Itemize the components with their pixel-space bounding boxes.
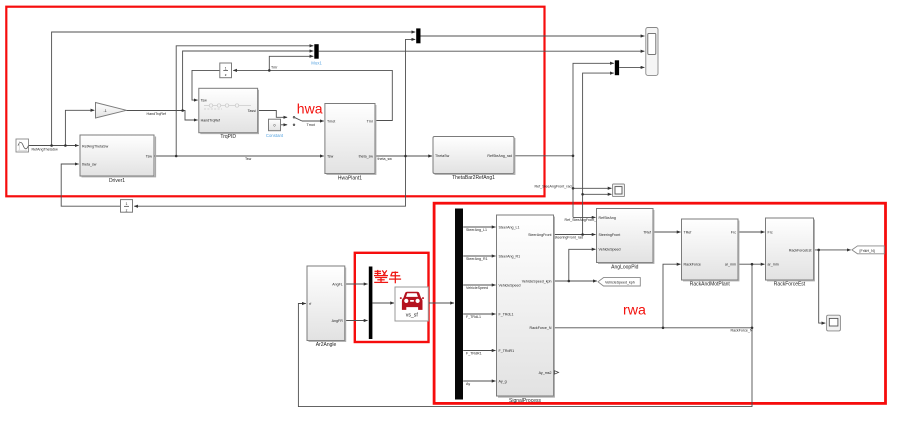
wire to gain input <box>65 110 94 145</box>
wire HwaPlant1 Tmr loop <box>269 70 392 120</box>
wire branch to Scope2 in1 <box>573 187 612 189</box>
svg-text:Tsw: Tsw <box>201 99 208 103</box>
annotation text hwa <box>297 100 323 116</box>
wire branch to Scope2 in2 <box>583 193 612 195</box>
svg-text:TrqPID: TrqPID <box>220 134 236 140</box>
svg-text:z: z <box>126 208 128 212</box>
goto tag VehicleSpeed_kph <box>598 278 640 286</box>
wire VehicleSpeed_kph branch to AngLoopPid <box>569 249 596 281</box>
svg-text:SteerAngFront: SteerAngFront <box>528 233 551 237</box>
wire bus bar to SignalProcess Ay <box>463 380 495 382</box>
annotation box zhengche region <box>355 253 429 342</box>
svg-text:RefSteAng_rad: RefSteAng_rad <box>487 154 512 158</box>
svg-text:Ref_SteeAngFront_rad: Ref_SteeAngFront_rad <box>565 218 602 222</box>
svg-text:Tmr: Tmr <box>271 66 278 70</box>
junction node SteerAngFront <box>581 193 584 196</box>
wire Ar2Angle AngFL to mux <box>345 283 368 285</box>
svg-text:Frc: Frc <box>731 230 736 234</box>
annotation box rwa region <box>434 203 885 403</box>
wire SteerAngFront to AngLoopPid <box>554 234 596 236</box>
wire TrqPID Tassi to switch <box>258 111 288 118</box>
constant block 0 <box>266 119 284 138</box>
wire RackForceEst out to tag <box>814 249 851 251</box>
wire delay1 out to TrqPID Tsw <box>192 70 220 100</box>
annotation text rwa <box>623 303 646 319</box>
svg-text:theta_sw: theta_sw <box>378 157 393 161</box>
wire car vs_sf out to bus bar <box>428 302 454 304</box>
wire label F_TRdR1 <box>466 352 482 356</box>
wire Driver1 Tsw to HwaPlant1 <box>154 155 324 157</box>
svg-text:VehicleSpeed_kph: VehicleSpeed_kph <box>605 281 635 285</box>
svg-text:Frc: Frc <box>768 230 773 234</box>
block RackForceEst <box>766 218 815 287</box>
block ThetaBar2RefAng1 <box>433 137 515 182</box>
svg-text:RackForceEst: RackForceEst <box>774 281 806 287</box>
svg-text:vs_sf: vs_sf <box>406 313 419 319</box>
block RackAndMotPlant <box>682 219 739 288</box>
junction node gain-in <box>64 144 67 147</box>
svg-text:ar_mm: ar_mm <box>768 263 779 267</box>
wire label Ref_SteeAngFront_rad upper <box>535 184 572 188</box>
wire bus bar to SignalProcess SteerAng_R1 <box>463 255 495 257</box>
svg-text:RackForce_N: RackForce_N <box>731 329 753 333</box>
svg-text:VehicleSpeed_kph: VehicleSpeed_kph <box>522 279 552 283</box>
wire Tmr branch to Mux1 <box>269 56 313 70</box>
mux bar zhengche <box>369 267 373 340</box>
goto tag F rack force output <box>852 246 884 254</box>
scope Scope1 <box>646 28 658 76</box>
wire label Tsw <box>245 157 252 161</box>
wire label SteerAng_R1 <box>466 257 488 261</box>
svg-text:RackForce: RackForce <box>684 263 701 267</box>
svg-text:rf: rf <box>309 302 311 306</box>
wire Mux2 out to Scope1 <box>421 35 645 37</box>
wire Mux1 out to Scope1 <box>319 50 645 52</box>
svg-text:SteerAng_L1: SteerAng_L1 <box>466 228 487 232</box>
svg-text:Driver1: Driver1 <box>109 178 125 184</box>
svg-text:Tmot: Tmot <box>327 119 335 123</box>
wire label SteeringFront_rad <box>554 236 583 240</box>
svg-text:ThetaBar2RefAng1: ThetaBar2RefAng1 <box>452 175 495 181</box>
unit delay block 1/z (bottom) <box>121 200 133 213</box>
annotation text zhengche (Chinese glyphs drawn as strokes) <box>374 270 401 283</box>
unit delay block 1/z (top) <box>220 63 232 78</box>
wire branch to Scope3 <box>819 250 826 323</box>
wire label Ref_SteeAngFront_rad lower <box>565 218 602 222</box>
svg-text:SteerAng_R1: SteerAng_R1 <box>466 257 488 261</box>
block TrqPID <box>199 88 259 140</box>
wire top rail to Mux2 <box>52 32 416 146</box>
wire RackForce_N branch to RackAndMotPlant <box>663 264 681 328</box>
annotation box hwa region <box>6 7 544 197</box>
bus selector bar <box>455 209 463 400</box>
svg-text:F_TRdR1: F_TRdR1 <box>466 352 482 356</box>
svg-text:TRef: TRef <box>643 230 651 234</box>
wire Tsw branch to Mux1 <box>176 46 313 156</box>
wire theta_sw branch up to Mux2 <box>406 39 416 156</box>
svg-text:AngFL: AngFL <box>332 282 343 286</box>
wire bus bar to SignalProcess F_TRdL1 <box>463 313 495 315</box>
svg-text:Tassi: Tassi <box>248 109 256 113</box>
junction node sine-rail <box>50 144 53 147</box>
scope Scope2 <box>613 184 625 197</box>
svg-text:RefAngThetaSw: RefAngThetaSw <box>32 148 59 152</box>
wire Ar2Angle AngFR to mux <box>345 320 368 322</box>
svg-text:Tsw: Tsw <box>327 154 334 158</box>
svg-text:SteerAng_R1: SteerAng_R1 <box>499 254 521 258</box>
junction node RackForceEst <box>817 249 820 252</box>
svg-text:Ay_g: Ay_g <box>499 379 507 383</box>
wire bus bar to SignalProcess F_TRdR1 <box>463 350 495 352</box>
mux Mux1 <box>311 44 322 65</box>
junction node Tmr <box>268 69 271 72</box>
block Ar2Angle <box>307 266 346 348</box>
wire ar_mm to RackForceEst <box>738 263 764 265</box>
wire label SteerAng_L1 <box>466 228 487 232</box>
unconnected output arrow Ay_ms2 <box>555 371 559 374</box>
mux Mux3 <box>615 60 619 75</box>
svg-text:theta_sw: theta_sw <box>359 154 374 158</box>
svg-text:Ay: Ay <box>466 382 470 386</box>
wire theta_sw to ThetaBar2RefAng1 <box>375 155 432 157</box>
wire Ref_SteeAngFront_rad vertical <box>573 63 614 217</box>
wire bus bar to SignalProcess VehicleSpeed <box>463 284 495 286</box>
sine wave source RefAngThetaSw <box>16 139 29 152</box>
wire into delay1 <box>233 69 269 71</box>
svg-text:Ar2Angle: Ar2Angle <box>316 342 337 348</box>
svg-text:RackForceEst: RackForceEst <box>789 248 812 252</box>
svg-text:z: z <box>225 73 227 77</box>
svg-text:RefSteAng: RefSteAng <box>599 216 616 220</box>
wire AngLoopPid TRef to RackAndMotPlant <box>653 231 680 233</box>
svg-text:VehicleSpeed: VehicleSpeed <box>499 283 521 287</box>
svg-text:ar_mm: ar_mm <box>725 263 736 267</box>
wire delay2 out to Driver1 theta_sw <box>61 164 120 206</box>
svg-text:0: 0 <box>274 124 276 128</box>
junction node RackForce_N <box>662 327 665 330</box>
svg-text:RefAngThetaSw: RefAngThetaSw <box>82 144 109 148</box>
wire HandTrqRef branch to Mux1 <box>183 51 314 111</box>
wire mux to car vs_sf <box>372 302 394 304</box>
wire Frc to RackForceEst <box>738 231 764 233</box>
svg-text:Tsw: Tsw <box>245 157 252 161</box>
wire Mux3 out to Scope1 <box>619 66 644 68</box>
svg-text:RackAndMotPlant: RackAndMotPlant <box>690 282 731 288</box>
junction node VehicleSpeed_kph <box>568 280 571 283</box>
wire label theta_sw <box>378 157 393 161</box>
svg-text:F_TRdL1: F_TRdL1 <box>466 315 481 319</box>
switch lever and output wire Tmot <box>295 118 302 121</box>
svg-text:hwa: hwa <box>297 100 323 116</box>
svg-text:[FrlkH_N]: [FrlkH_N] <box>860 249 875 253</box>
svg-text:VehicleSpeed: VehicleSpeed <box>599 248 621 252</box>
wire VehicleSpeed_kph to tag <box>554 280 597 282</box>
svg-text:SteeringFront_rad: SteeringFront_rad <box>554 236 583 240</box>
wire SteerAngFront vertical to Mux3 <box>583 73 614 234</box>
svg-text:Constant: Constant <box>266 133 284 138</box>
block SignalProcess <box>497 215 555 404</box>
svg-text:1: 1 <box>126 202 128 206</box>
svg-text:ThetaSw: ThetaSw <box>435 154 450 158</box>
wire label VehicleSpeed <box>466 286 488 290</box>
svg-text:AngLoopPid: AngLoopPid <box>611 264 638 270</box>
wire label HandTrqRef <box>147 112 166 116</box>
block Driver1 <box>80 135 156 184</box>
wire label RackForce_N <box>731 329 753 333</box>
svg-text:HwaPlant1: HwaPlant1 <box>338 175 362 181</box>
block AngLoopPid <box>597 209 654 271</box>
svg-text:TRef: TRef <box>684 230 692 234</box>
wire ThetaBar2RefAng1 out RefSteAng_rad <box>514 155 573 157</box>
svg-text:Ay_ms2: Ay_ms2 <box>539 371 552 375</box>
wire sine to Driver1 <box>29 145 79 147</box>
mux Mux2 <box>416 28 420 43</box>
wire label Ay <box>466 382 470 386</box>
svg-text:F_TRdL1: F_TRdL1 <box>499 312 514 316</box>
wire theta_sw branch down to delay2 <box>134 156 405 206</box>
junction node HandTrqRef <box>181 109 184 112</box>
svg-text:F_TRdR1: F_TRdR1 <box>499 349 515 353</box>
wire Constant to switch <box>281 124 288 126</box>
svg-text:AngFR: AngFR <box>332 319 344 323</box>
manual switch ports <box>293 116 295 125</box>
wire gain out HandTrqRef <box>127 111 198 121</box>
wire label RefAngThetaSw <box>32 148 59 152</box>
svg-text:Ref_SteeAngFront_rad: Ref_SteeAngFront_rad <box>535 184 572 188</box>
wire label F_TRdL1 <box>466 315 481 319</box>
gain block -1 <box>96 103 127 119</box>
svg-text:VehicleSpeed: VehicleSpeed <box>466 286 488 290</box>
svg-text:Tsw: Tsw <box>146 154 153 158</box>
block HwaPlant1 <box>325 104 376 182</box>
svg-text:SteerAng_L1: SteerAng_L1 <box>499 225 520 229</box>
wire into AngLoopPid RefSteAng <box>573 216 596 218</box>
svg-text:1: 1 <box>225 66 227 70</box>
svg-text:Tmr: Tmr <box>367 119 374 123</box>
svg-text:SteeringFront: SteeringFront <box>599 233 621 237</box>
svg-text:HandTrqRef: HandTrqRef <box>147 112 166 116</box>
wire label Tmot <box>307 123 315 127</box>
svg-text:Tmot: Tmot <box>307 123 315 127</box>
svg-text:Mux1: Mux1 <box>311 61 322 66</box>
svg-text:RackForce_N: RackForce_N <box>530 326 552 330</box>
junction node ar_mm <box>751 263 754 266</box>
junction node theta_sw <box>404 155 407 158</box>
wire bus bar to SignalProcess SteerAng_L1 <box>463 226 495 228</box>
scope Scope3 <box>827 315 841 331</box>
svg-text:theta_sw: theta_sw <box>82 162 97 166</box>
wire ar_mm feedback loop to Ar2Angle <box>298 264 752 406</box>
block vs_sf vehicle plant <box>395 287 428 321</box>
junction node rail-vertical <box>751 327 754 330</box>
svg-text:rwa: rwa <box>623 303 646 319</box>
junction node RefSteeAng <box>572 155 575 158</box>
junction node Tsw <box>175 155 178 158</box>
svg-text:-1: -1 <box>104 109 107 113</box>
svg-text:HandTrqRef: HandTrqRef <box>201 119 220 123</box>
wire RackForce_N rail <box>554 327 753 329</box>
wire label Tmr <box>271 66 278 70</box>
svg-text:SignalProcess: SignalProcess <box>509 398 541 404</box>
